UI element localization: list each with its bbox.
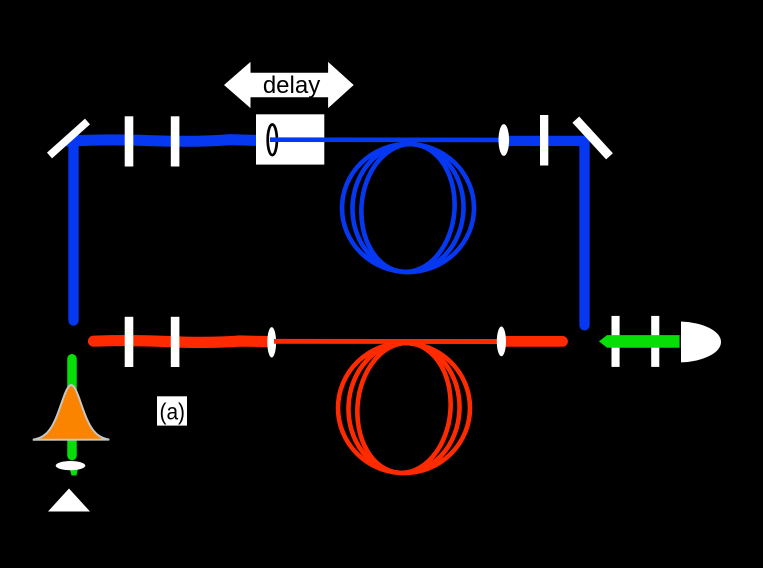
wire: green input beam (vertical, bottom-left) <box>67 359 77 456</box>
svg-text:delay: delay <box>263 72 320 99</box>
delay double arrow <box>224 62 354 108</box>
delay stage box <box>256 114 324 164</box>
waveplate WP4 (red arm) <box>125 317 134 367</box>
wire: red beam thick (right) <box>506 336 563 347</box>
wire: green output beam (arrow tip left) <box>599 335 680 348</box>
wire: red beam horizontal (left thick) <box>94 341 269 343</box>
lens L3 (white, red arm left) <box>267 327 276 357</box>
fiber coil F1 (blue) loop outer <box>342 144 474 272</box>
waveplate WP2 (blue arm) <box>171 116 180 166</box>
fiber coil F1 (blue) loop inner <box>356 140 460 276</box>
wire: blue fiber line (thin) <box>270 137 501 142</box>
fiber coil F2 (red) loop inner <box>352 339 456 477</box>
waveplate WP3 (blue arm right) <box>540 115 548 166</box>
label (a) <box>157 396 187 425</box>
wire: blue beam vertical (left side) <box>68 145 78 321</box>
mirror M1 (top-left) <box>50 122 88 156</box>
mirror M2 (top-right) <box>576 120 610 157</box>
fiber coil F2 (red) loop outer <box>338 343 470 473</box>
waveplate WP7 (output) <box>651 316 659 367</box>
fiber coil F1 (blue) loop middle <box>350 142 466 275</box>
wire: red fiber line (thin) <box>274 339 499 344</box>
svg-text:(a): (a) <box>160 399 186 425</box>
lens L1 (in delay box, black outline) <box>268 125 277 156</box>
lens L4 (white, red arm right) <box>497 327 506 357</box>
fiber coil F2 (red) loop middle <box>346 341 463 476</box>
green speck below lens <box>70 468 79 476</box>
waveplate WP6 (output) <box>612 316 620 367</box>
lens L5 (white, input) <box>56 461 86 470</box>
prism (white triangle) <box>48 489 90 512</box>
waveplate WP1 (blue arm) <box>125 116 134 166</box>
detector D1 (photodiode) <box>681 322 721 363</box>
wire: blue beam horizontal (top arm) <box>66 140 271 142</box>
waveplate WP5 (red arm) <box>171 317 180 367</box>
lens L2 (white, blue arm right) <box>499 124 510 156</box>
input pulse (orange gaussian) <box>33 385 110 440</box>
wire: blue beam thick right with corner down <box>506 141 585 325</box>
